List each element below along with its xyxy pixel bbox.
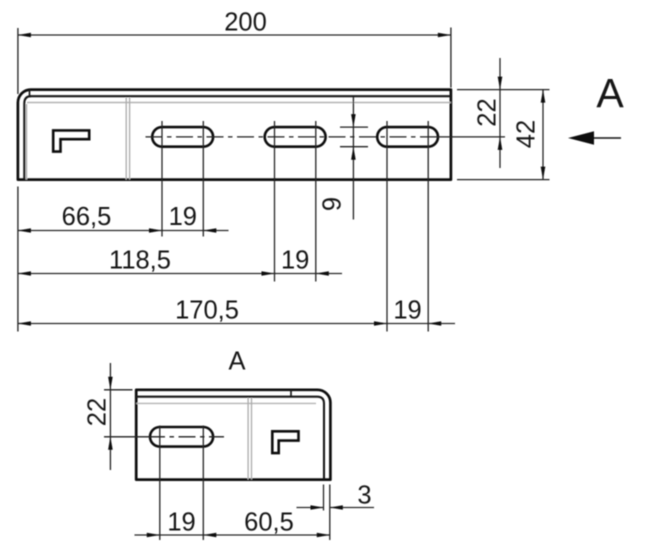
view A: slot (oblong hole) — [150, 427, 213, 447]
extension lines through slot 2 arc centres — [274, 121, 276, 282]
section view direction arrow — [594, 137, 621, 139]
slot 3 (oblong hole) — [377, 127, 438, 147]
view A: hem end tick — [290, 390, 292, 397]
svg-text:118,5: 118,5 — [109, 247, 171, 275]
top view: part outer outline — [18, 90, 451, 180]
svg-text:3: 3 — [357, 482, 371, 510]
svg-text:66,5: 66,5 — [62, 203, 112, 231]
left extension line below part for 66,5 118,5 170,5 — [17, 187, 19, 332]
view A: slot centerline (dash-dot) — [104, 436, 148, 438]
view A: dimension 3 lines — [297, 507, 324, 509]
top view: bend tangent line horizontal (gray) — [27, 102, 451, 104]
dimension 170,5 and 19 line — [18, 323, 455, 325]
top view: hem inner left line with corner arc — [24, 96, 31, 179]
dimension 42 line — [542, 90, 544, 180]
svg-text:200: 200 — [224, 9, 267, 37]
view A: bend tangent line horizontal (gray) — [136, 402, 316, 404]
svg-text:A: A — [596, 70, 624, 116]
right side extension lines (22 / 42) — [457, 89, 550, 91]
view A: stamped L-mark — [272, 431, 298, 453]
svg-text:22: 22 — [84, 398, 112, 426]
view A: hem inner line (top + right with corner arc) — [136, 397, 324, 480]
extension lines through slot 3 arc centres — [386, 121, 388, 332]
extension lines for 200 dimension — [17, 28, 19, 94]
svg-text:19: 19 — [167, 509, 195, 537]
svg-text:170,5: 170,5 — [175, 297, 239, 325]
view A: dimension 19 and 60,5 line — [135, 534, 330, 536]
view A: part outer outline — [136, 390, 330, 480]
dimension 22 (top view) line — [499, 58, 501, 168]
slot 2 (oblong hole) — [265, 127, 326, 147]
top view: hem inner top line — [30, 95, 451, 97]
top view: bend zone line pair (gray) — [125, 98, 127, 180]
dimension 66,5 and 19 line — [18, 230, 229, 232]
svg-text:19: 19 — [281, 247, 309, 275]
extension lines through slot 1 arc centres — [161, 121, 163, 237]
top view: horizontal centerline (dash-dot) through slots — [146, 136, 427, 138]
view A: bend zone line pair (gray) — [247, 398, 249, 480]
top view: hem end tick at left corner — [29, 90, 31, 97]
view A: dimension 22 line — [109, 363, 111, 470]
svg-text:19: 19 — [169, 203, 197, 231]
dimension 200 line — [18, 34, 451, 36]
dimension 118,5 and 19 line — [18, 273, 342, 275]
slot 1 (oblong hole) — [152, 127, 213, 147]
svg-text:60,5: 60,5 — [244, 509, 294, 537]
view A: extension lines through slot arc centres — [159, 426, 161, 541]
top view: stamped L-mark — [53, 130, 89, 151]
svg-text:A: A — [228, 348, 245, 376]
view A: extension line right edge for 60,5 / 3 — [329, 485, 331, 541]
dimension 9 line with ticks and arrows — [352, 97, 354, 220]
svg-text:9: 9 — [319, 197, 347, 211]
svg-text:19: 19 — [393, 297, 421, 325]
svg-text:42: 42 — [513, 120, 541, 148]
top view: bend tangent line vertical left (gray) — [25, 104, 27, 180]
svg-text:22: 22 — [474, 98, 502, 126]
view A: top edge extension tick for 22 — [104, 389, 133, 391]
